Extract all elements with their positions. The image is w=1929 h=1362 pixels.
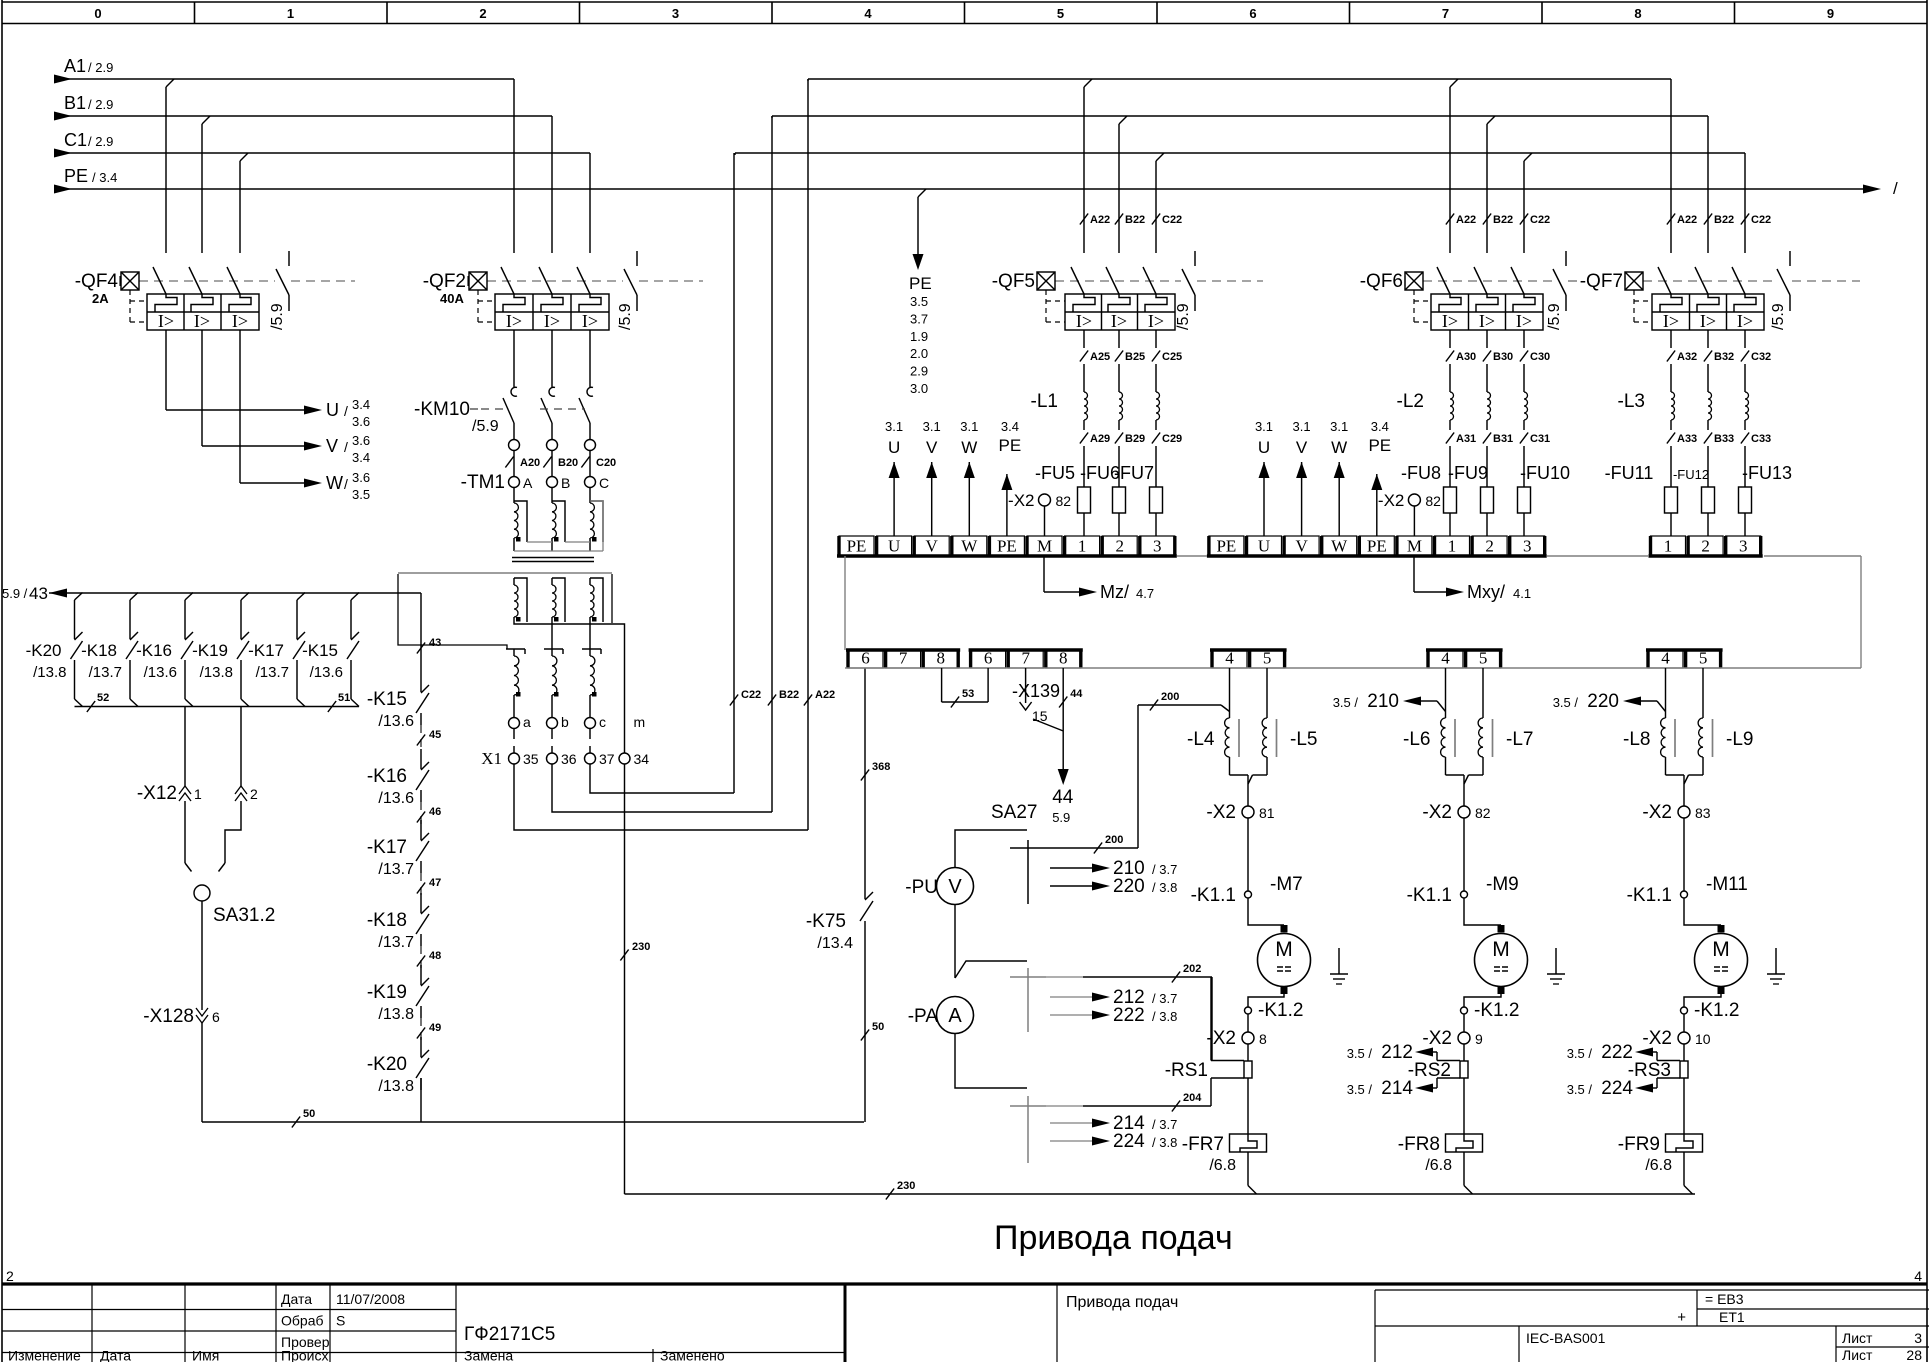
svg-text:W: W (326, 473, 343, 493)
svg-text:3.1: 3.1 (1255, 419, 1273, 434)
svg-text:-L9: -L9 (1726, 729, 1753, 750)
svg-text:-X2: -X2 (1378, 491, 1404, 510)
svg-text:M: M (1492, 938, 1510, 961)
svg-text:10: 10 (1695, 1031, 1711, 1047)
svg-text:220: 220 (1113, 876, 1145, 897)
svg-text:A1: A1 (64, 56, 86, 76)
svg-text:40A: 40A (440, 291, 464, 306)
svg-text:3.5: 3.5 (910, 294, 928, 309)
svg-text:50: 50 (303, 1108, 315, 1120)
svg-text:IEC-BAS001: IEC-BAS001 (1526, 1330, 1606, 1346)
svg-text:-K1.1: -K1.1 (1407, 885, 1452, 906)
svg-text:/5.9: /5.9 (269, 303, 286, 330)
svg-text:-X2: -X2 (1642, 802, 1672, 823)
svg-text:I>: I> (544, 311, 560, 331)
svg-text:-TM1: -TM1 (461, 472, 505, 493)
svg-text:V: V (326, 436, 338, 456)
svg-text:48: 48 (429, 950, 441, 962)
svg-text:C22: C22 (741, 689, 761, 701)
svg-text:222: 222 (1113, 1005, 1145, 1026)
svg-text:X1: X1 (481, 749, 502, 768)
svg-text:U: U (1258, 438, 1270, 457)
svg-text:B30: B30 (1493, 351, 1513, 363)
svg-text:-PU: -PU (905, 877, 938, 898)
svg-text:A22: A22 (1090, 214, 1110, 226)
svg-text:/5.9: /5.9 (617, 303, 634, 330)
svg-text:M: M (1037, 537, 1052, 556)
svg-text:A22: A22 (1456, 214, 1476, 226)
svg-text:3: 3 (672, 6, 679, 21)
svg-text:Имя: Имя (192, 1348, 219, 1362)
svg-text:C1: C1 (64, 130, 87, 150)
svg-text:-QF6: -QF6 (1360, 271, 1403, 292)
svg-text:202: 202 (1183, 963, 1201, 975)
svg-text:A25: A25 (1090, 351, 1110, 363)
svg-text:Mz/: Mz/ (1100, 582, 1129, 602)
svg-text:-FU11: -FU11 (1605, 463, 1654, 483)
svg-text:Происх: Происх (281, 1348, 328, 1362)
svg-text:= EB3: = EB3 (1705, 1291, 1744, 1307)
svg-text:A31: A31 (1456, 433, 1476, 445)
svg-text:Привода подач: Привода подач (1066, 1294, 1178, 1311)
svg-text:-X2: -X2 (1206, 802, 1236, 823)
svg-text:A22: A22 (815, 689, 835, 701)
svg-text:+: + (1677, 1309, 1686, 1326)
svg-text:C31: C31 (1530, 433, 1550, 445)
svg-text:/6.8: /6.8 (1209, 1157, 1236, 1174)
svg-text:210: 210 (1367, 691, 1399, 712)
svg-text:3.4: 3.4 (1371, 419, 1389, 434)
svg-text:-RS1: -RS1 (1165, 1060, 1208, 1081)
svg-text:-FR8: -FR8 (1398, 1134, 1440, 1155)
svg-text:ET1: ET1 (1719, 1309, 1745, 1325)
svg-text:/13.6: /13.6 (310, 664, 343, 681)
svg-text:82: 82 (1425, 493, 1441, 509)
svg-text:V: V (926, 438, 938, 457)
svg-text:3: 3 (1914, 1330, 1922, 1346)
svg-text:-KM10: -KM10 (414, 399, 470, 420)
svg-text:-K15: -K15 (367, 689, 407, 710)
svg-text:/ 3.8: / 3.8 (1152, 1009, 1177, 1024)
svg-text:2: 2 (6, 1268, 14, 1284)
svg-text:I>: I> (1737, 311, 1753, 331)
svg-text:-K18: -K18 (81, 641, 117, 660)
svg-text:/ 3.7: / 3.7 (1152, 1117, 1177, 1132)
svg-text:/13.6: /13.6 (378, 713, 414, 730)
svg-text:3.4: 3.4 (352, 397, 370, 412)
svg-text:-X2: -X2 (1422, 802, 1452, 823)
svg-text:45: 45 (429, 729, 441, 741)
svg-text:46: 46 (429, 806, 441, 818)
svg-text:-K1.2: -K1.2 (1694, 1000, 1739, 1021)
svg-text:/13.7: /13.7 (89, 664, 122, 681)
svg-text:-L6: -L6 (1403, 729, 1430, 750)
svg-text:3.1: 3.1 (885, 419, 903, 434)
svg-text:52: 52 (97, 692, 109, 704)
svg-text:/5.9: /5.9 (1770, 303, 1787, 330)
svg-text:PE: PE (1368, 436, 1391, 455)
svg-text:2A: 2A (92, 291, 109, 306)
svg-text:43: 43 (429, 637, 441, 649)
svg-text:Дата: Дата (281, 1291, 312, 1307)
svg-text:-FU10: -FU10 (1520, 463, 1570, 483)
svg-text:W: W (1331, 438, 1347, 457)
svg-text:C29: C29 (1162, 433, 1182, 445)
svg-text:4: 4 (1914, 1268, 1922, 1284)
svg-text:4.1: 4.1 (1513, 586, 1531, 601)
svg-text:I>: I> (1076, 311, 1092, 331)
svg-text:S: S (336, 1313, 345, 1329)
svg-text:/ 3.8: / 3.8 (1152, 880, 1177, 895)
svg-text:Привода подач: Привода подач (994, 1219, 1233, 1257)
svg-text:A30: A30 (1456, 351, 1476, 363)
svg-text:83: 83 (1695, 805, 1711, 821)
svg-text:/13.7: /13.7 (378, 861, 414, 878)
svg-text:200: 200 (1161, 691, 1179, 703)
svg-text:204: 204 (1183, 1092, 1202, 1104)
svg-text:Лист: Лист (1842, 1347, 1873, 1362)
svg-text:-K15: -K15 (302, 641, 338, 660)
svg-text:SA31.2: SA31.2 (213, 905, 275, 926)
svg-text:-K17: -K17 (248, 641, 284, 660)
svg-text:B: B (561, 475, 570, 491)
svg-text:82: 82 (1056, 493, 1072, 509)
svg-text:PE: PE (1367, 537, 1387, 556)
svg-text:-QF7: -QF7 (1580, 271, 1623, 292)
svg-text:2: 2 (479, 6, 486, 21)
svg-text:224: 224 (1113, 1131, 1145, 1152)
svg-text:230: 230 (632, 941, 650, 953)
svg-text:34: 34 (634, 751, 650, 767)
svg-text:A: A (948, 1005, 962, 1027)
svg-text:V: V (948, 876, 962, 898)
svg-text:7: 7 (1442, 6, 1449, 21)
svg-text:3.5 /: 3.5 / (1333, 695, 1359, 710)
svg-text:-FU8: -FU8 (1401, 463, 1441, 483)
svg-text:9: 9 (1475, 1031, 1483, 1047)
svg-text:/13.4: /13.4 (817, 935, 853, 952)
svg-text:PE: PE (1216, 537, 1236, 556)
svg-text:PE: PE (999, 436, 1022, 455)
svg-text:-K1.2: -K1.2 (1474, 1000, 1519, 1021)
svg-text:/: / (1893, 179, 1898, 198)
svg-text:/13.6: /13.6 (378, 790, 414, 807)
svg-text:B22: B22 (779, 689, 799, 701)
svg-text:Заменено: Заменено (660, 1348, 725, 1362)
svg-text:I>: I> (194, 311, 210, 331)
svg-text:I>: I> (1700, 311, 1716, 331)
svg-text:3.5 /: 3.5 / (1347, 1082, 1373, 1097)
svg-text:PE: PE (997, 537, 1017, 556)
svg-text:-L8: -L8 (1623, 729, 1650, 750)
svg-text:/6.8: /6.8 (1645, 1157, 1672, 1174)
svg-text:-RS2: -RS2 (1408, 1060, 1451, 1081)
svg-text:B29: B29 (1125, 433, 1145, 445)
svg-text:11/07/2008: 11/07/2008 (336, 1291, 405, 1307)
svg-text:V: V (926, 537, 939, 556)
svg-text:U: U (326, 400, 339, 420)
svg-text:Замена: Замена (464, 1348, 513, 1362)
svg-text:Изменение: Изменение (8, 1348, 81, 1362)
svg-text:6: 6 (212, 1009, 220, 1025)
svg-text:C20: C20 (596, 457, 616, 469)
svg-text:a: a (523, 714, 531, 730)
svg-text:/ 2.9: / 2.9 (88, 134, 113, 149)
svg-text:/ 3.7: / 3.7 (1152, 862, 1177, 877)
svg-text:220: 220 (1587, 691, 1619, 712)
svg-text:47: 47 (429, 877, 441, 889)
svg-text:2: 2 (250, 786, 258, 802)
svg-text:1: 1 (1078, 537, 1087, 556)
svg-text:3.1: 3.1 (923, 419, 941, 434)
svg-text:/13.6: /13.6 (144, 664, 177, 681)
svg-text:1: 1 (287, 6, 294, 21)
svg-text:3.1: 3.1 (1293, 419, 1311, 434)
svg-text:1: 1 (194, 786, 202, 802)
svg-text:-L3: -L3 (1618, 391, 1645, 412)
svg-text:-K18: -K18 (367, 910, 407, 931)
svg-text:A22: A22 (1677, 214, 1697, 226)
svg-text:-K20: -K20 (26, 641, 62, 660)
svg-text:B32: B32 (1714, 351, 1734, 363)
svg-text:I>: I> (1663, 311, 1679, 331)
svg-text:PE: PE (847, 537, 867, 556)
svg-text:/ 3.8: / 3.8 (1152, 1135, 1177, 1150)
svg-text:/: / (344, 403, 348, 419)
svg-text:3.5 /: 3.5 / (1347, 1046, 1373, 1061)
svg-text:-QF5: -QF5 (992, 271, 1035, 292)
svg-text:C30: C30 (1530, 351, 1550, 363)
svg-text:51: 51 (338, 692, 350, 704)
svg-text:-QF4: -QF4 (75, 271, 119, 292)
svg-text:2: 2 (1485, 537, 1494, 556)
svg-text:I>: I> (232, 311, 248, 331)
svg-text:-K1.1: -K1.1 (1627, 885, 1672, 906)
svg-text:I>: I> (158, 311, 174, 331)
svg-text:C22: C22 (1162, 214, 1182, 226)
svg-text:28: 28 (1906, 1347, 1922, 1362)
svg-text:-FR7: -FR7 (1182, 1134, 1224, 1155)
svg-text:3: 3 (1523, 537, 1532, 556)
svg-text:B33: B33 (1714, 433, 1734, 445)
svg-text:-K20: -K20 (367, 1054, 407, 1075)
svg-text:B22: B22 (1714, 214, 1734, 226)
svg-text:-FR9: -FR9 (1618, 1134, 1660, 1155)
svg-text:A32: A32 (1677, 351, 1697, 363)
svg-text:W: W (961, 438, 977, 457)
svg-text:3: 3 (1739, 537, 1748, 556)
svg-text:81: 81 (1259, 805, 1275, 821)
svg-text:9: 9 (1827, 6, 1834, 21)
svg-text:I>: I> (506, 311, 522, 331)
svg-text:2.0: 2.0 (910, 346, 928, 361)
svg-text:A: A (523, 475, 533, 491)
svg-text:/: / (344, 439, 348, 455)
svg-text:M: M (1275, 938, 1293, 961)
svg-text:/13.7: /13.7 (256, 664, 289, 681)
svg-text:U: U (888, 537, 900, 556)
svg-text:37: 37 (599, 751, 615, 767)
svg-text:5.9: 5.9 (1052, 810, 1070, 825)
svg-text:ГФ2171С5: ГФ2171С5 (464, 1324, 555, 1345)
svg-text:C25: C25 (1162, 351, 1182, 363)
svg-text:3.4: 3.4 (1001, 419, 1019, 434)
svg-text:3.1: 3.1 (1330, 419, 1348, 434)
svg-text:-FU13: -FU13 (1742, 463, 1792, 483)
svg-text:1: 1 (1448, 537, 1457, 556)
svg-text:U: U (1258, 537, 1270, 556)
svg-text:-PA: -PA (908, 1006, 939, 1027)
svg-text:M: M (1712, 938, 1730, 961)
svg-text:50: 50 (872, 1021, 884, 1033)
svg-text:V: V (1296, 438, 1308, 457)
svg-text:b: b (561, 714, 569, 730)
svg-text:/13.8: /13.8 (378, 1078, 414, 1095)
svg-text:-L7: -L7 (1506, 729, 1533, 750)
svg-text:Mxy/: Mxy/ (1467, 582, 1505, 602)
svg-text:I>: I> (1516, 311, 1532, 331)
svg-text:C22: C22 (1530, 214, 1550, 226)
svg-text:3: 3 (1153, 537, 1162, 556)
svg-text:-K19: -K19 (367, 982, 407, 1003)
svg-text:-L4: -L4 (1187, 729, 1215, 750)
svg-text:3.0: 3.0 (910, 381, 928, 396)
svg-text:/5.9: /5.9 (1546, 303, 1563, 330)
svg-text:-K75: -K75 (806, 911, 846, 932)
svg-text:I>: I> (1442, 311, 1458, 331)
svg-text:/13.8: /13.8 (378, 1006, 414, 1023)
svg-text:53: 53 (962, 688, 974, 700)
svg-text:214: 214 (1381, 1078, 1413, 1099)
svg-text:/13.8: /13.8 (33, 664, 66, 681)
svg-text:C22: C22 (1751, 214, 1771, 226)
svg-text:-X139: -X139 (1012, 681, 1060, 701)
svg-text:8: 8 (1259, 1031, 1267, 1047)
svg-text:/ 2.9: / 2.9 (88, 60, 113, 75)
svg-text:U: U (888, 438, 900, 457)
svg-text:5: 5 (1057, 6, 1064, 21)
svg-text:B22: B22 (1125, 214, 1145, 226)
svg-text:-X128: -X128 (143, 1006, 194, 1027)
svg-text:-K1.1: -K1.1 (1191, 885, 1236, 906)
svg-text:Дата: Дата (100, 1348, 131, 1362)
svg-text:C32: C32 (1751, 351, 1771, 363)
svg-text:4: 4 (864, 6, 872, 21)
svg-text:A33: A33 (1677, 433, 1697, 445)
svg-text:-K16: -K16 (367, 766, 407, 787)
svg-text:-FU9: -FU9 (1448, 463, 1488, 483)
svg-text:/13.8: /13.8 (200, 664, 233, 681)
svg-text:-X2: -X2 (1422, 1028, 1452, 1049)
svg-text:3.4: 3.4 (352, 450, 370, 465)
svg-text:/: / (344, 476, 348, 492)
svg-text:B31: B31 (1493, 433, 1513, 445)
svg-text:-L5: -L5 (1290, 729, 1317, 750)
svg-text:-FU12: -FU12 (1673, 467, 1709, 482)
svg-text:Обраб: Обраб (281, 1313, 324, 1329)
svg-text:6: 6 (1249, 6, 1256, 21)
svg-text:43: 43 (29, 584, 48, 603)
svg-text:230: 230 (897, 1180, 915, 1192)
svg-text:PE: PE (909, 274, 932, 293)
svg-text:224: 224 (1601, 1078, 1633, 1099)
svg-text:-K19: -K19 (192, 641, 228, 660)
svg-text:W: W (1331, 537, 1348, 556)
svg-text:-L1: -L1 (1031, 391, 1058, 412)
svg-text:/6.8: /6.8 (1425, 1157, 1452, 1174)
svg-text:82: 82 (1475, 805, 1491, 821)
svg-text:49: 49 (429, 1022, 441, 1034)
svg-text:B25: B25 (1125, 351, 1145, 363)
svg-text:-QF2: -QF2 (423, 271, 466, 292)
svg-text:-K17: -K17 (367, 837, 407, 858)
svg-text:-M9: -M9 (1486, 874, 1519, 895)
svg-text:44: 44 (1070, 688, 1083, 700)
svg-text:/ 3.4: / 3.4 (92, 170, 117, 185)
svg-text:/13.7: /13.7 (378, 934, 414, 951)
svg-text:-FU7: -FU7 (1114, 463, 1154, 483)
svg-text:/ 2.9: / 2.9 (88, 97, 113, 112)
svg-text:3.6: 3.6 (352, 433, 370, 448)
svg-text:2.9: 2.9 (910, 364, 928, 379)
svg-text:-FU5: -FU5 (1035, 463, 1075, 483)
svg-text:/ 3.7: / 3.7 (1152, 991, 1177, 1006)
svg-text:-M7: -M7 (1270, 874, 1303, 895)
svg-text:Лист: Лист (1842, 1330, 1873, 1346)
svg-text:200: 200 (1105, 834, 1123, 846)
svg-text:2: 2 (1701, 537, 1710, 556)
svg-text:0: 0 (94, 6, 101, 21)
svg-text:m: m (634, 714, 646, 730)
svg-text:3.7: 3.7 (910, 311, 928, 326)
svg-text:44: 44 (1052, 787, 1074, 808)
svg-text:3.5 /: 3.5 / (1567, 1046, 1593, 1061)
svg-text:A29: A29 (1090, 433, 1110, 445)
svg-text:1.9: 1.9 (910, 329, 928, 344)
svg-text:-RS3: -RS3 (1628, 1060, 1671, 1081)
svg-text:/5.9: /5.9 (472, 418, 499, 435)
svg-text:M: M (1407, 537, 1422, 556)
svg-text:3.1: 3.1 (960, 419, 978, 434)
svg-text:4.7: 4.7 (1136, 586, 1154, 601)
svg-text:B22: B22 (1493, 214, 1513, 226)
svg-text:C: C (599, 475, 609, 491)
svg-text:3.5 /: 3.5 / (1567, 1082, 1593, 1097)
svg-text:-K16: -K16 (136, 641, 172, 660)
svg-text:/5.9: /5.9 (1175, 303, 1192, 330)
svg-text:35: 35 (523, 751, 539, 767)
svg-text:C33: C33 (1751, 433, 1771, 445)
svg-text:I>: I> (1148, 311, 1164, 331)
svg-text:V: V (1295, 537, 1308, 556)
svg-text:3.5 /: 3.5 / (1553, 695, 1579, 710)
svg-text:-X12: -X12 (137, 783, 177, 804)
svg-text:3.6: 3.6 (352, 414, 370, 429)
svg-text:PE: PE (64, 166, 88, 186)
svg-text:-X2: -X2 (1008, 491, 1034, 510)
svg-text:-M11: -M11 (1706, 874, 1748, 895)
svg-text:5.9 /: 5.9 / (2, 586, 28, 601)
svg-text:-K1.2: -K1.2 (1258, 1000, 1303, 1021)
svg-text:SA27: SA27 (991, 802, 1037, 823)
svg-text:I>: I> (1111, 311, 1127, 331)
svg-text:I>: I> (1479, 311, 1495, 331)
svg-text:W: W (961, 537, 978, 556)
svg-text:c: c (599, 714, 606, 730)
svg-text:3.5: 3.5 (352, 487, 370, 502)
svg-text:8: 8 (1634, 6, 1641, 21)
svg-text:A20: A20 (520, 457, 540, 469)
